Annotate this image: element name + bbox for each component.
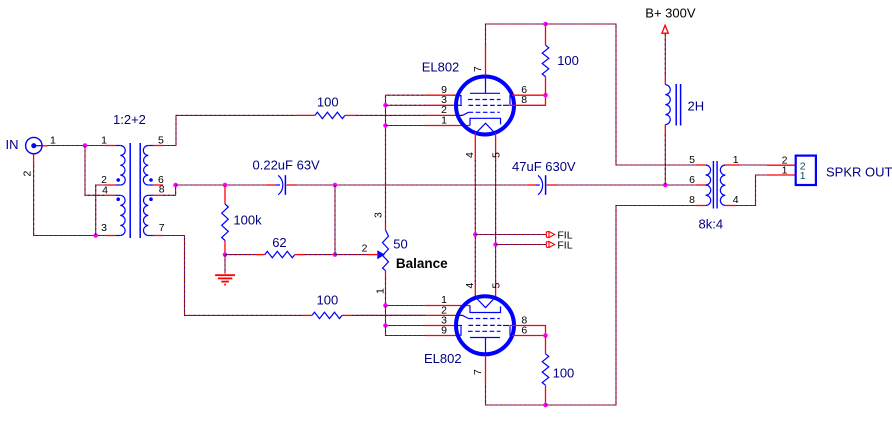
- transformer T1 secondary winding lower (pins 8-7): [148, 194, 153, 196]
- V1 grid dashed row g2: [468, 99, 501, 101]
- svg-text:9: 9: [441, 325, 447, 337]
- svg-text:1: 1: [800, 170, 806, 182]
- V1 plate: [470, 92, 500, 94]
- V2 plate: [470, 337, 500, 339]
- svg-text:2: 2: [362, 243, 368, 255]
- V2 heater filament: [475, 297, 495, 308]
- V2 plate lead to bottom rail: [485, 355, 487, 386]
- svg-text:FIL: FIL: [557, 239, 572, 251]
- tube V1 EL802 envelope: [456, 77, 514, 135]
- junction top rail R5: [543, 22, 548, 27]
- polarity dot T1 pin2: [116, 178, 120, 182]
- wire FIL bottom: [496, 244, 547, 246]
- V1 cathode: [470, 118, 501, 125]
- V2 grid dashed row g3: [469, 324, 502, 326]
- wire top rail to output transformer pin5: [546, 24, 696, 165]
- V1 grid dashed row g1: [469, 111, 500, 113]
- transformer T2 primary winding upper (pins 5-6): [706, 165, 711, 185]
- transformer T2 primary winding lower (pins 6-8): [706, 185, 711, 206]
- wire R1 to V1 pin2: [356, 114, 425, 116]
- svg-text:1: 1: [101, 135, 107, 147]
- resistor R2 100 grid stopper bottom: [302, 314, 312, 316]
- junction V1 pin3 row: [383, 103, 388, 108]
- T1 pin6 red stub: [153, 184, 163, 186]
- V2 cathode: [470, 306, 501, 313]
- svg-text:IN: IN: [6, 137, 19, 152]
- svg-text:4: 4: [733, 194, 739, 206]
- wire pot bottom bus to V2 pin1: [386, 278, 426, 306]
- wire T1 pin7 down and right to R2: [163, 236, 302, 316]
- resistor R3 100k to ground: [224, 185, 226, 204]
- wire junction up to C1 net: [334, 185, 336, 255]
- wire T1 pin5 up and right to R1: [163, 115, 296, 145]
- connector FIL top off-page arrow: [546, 232, 554, 238]
- wire ground node stem: [224, 255, 226, 274]
- wire T2 pin1 to SPKR OUT pin2: [725, 164, 740, 166]
- power symbol B+ arrow: [662, 25, 668, 33]
- connector J2 SPKR OUT box: [796, 156, 816, 185]
- V2 pin6 red lead: [512, 335, 546, 337]
- wire J1 pin2 down and right to T1 pin3: [34, 166, 106, 236]
- connector FIL bottom off-page arrow: [546, 242, 554, 248]
- wire R2 to V2 pin2 row: [355, 314, 425, 316]
- svg-text:100k: 100k: [233, 213, 262, 228]
- wire T1 pin8 up to pin6 net: [163, 185, 176, 195]
- capacitor C2 47uF left lead: [528, 184, 536, 186]
- capacitor C2 47uF: [535, 184, 539, 186]
- svg-text:EL802: EL802: [424, 351, 462, 366]
- junction wiper node: [333, 252, 338, 257]
- wire C2 to output transformer pin6: [557, 184, 696, 186]
- svg-text:8k:4: 8k:4: [699, 217, 724, 232]
- junction V1 pin1 row: [383, 123, 388, 128]
- svg-text:3: 3: [101, 222, 107, 234]
- junction bottom rail R6: [543, 403, 548, 408]
- wire junction down to T1 pin4: [85, 146, 106, 196]
- V2 grid dashed row g2: [468, 330, 501, 332]
- V1 pin4 lead down: [474, 133, 476, 160]
- junction V2 pin1 row: [383, 303, 388, 308]
- polarity dot T1 pin8: [149, 197, 153, 201]
- svg-text:7: 7: [472, 66, 484, 72]
- potentiometer VR1 wiper arrow: [377, 250, 385, 259]
- junction T1 pin6/pin8 tie: [173, 183, 178, 188]
- V2 grid bracket right: [510, 326, 514, 335]
- svg-text:100: 100: [317, 95, 339, 110]
- tube V2 EL802 envelope: [456, 296, 514, 354]
- svg-text:62: 62: [272, 235, 286, 250]
- wire T2 pin4 to SPKR OUT pin1: [725, 205, 735, 207]
- V2 grid dashed row g1: [469, 318, 500, 320]
- junction FIL top on pin4 bus: [473, 232, 478, 237]
- svg-text:3: 3: [373, 212, 385, 218]
- resistor R6 100 bottom plate load: [545, 336, 547, 354]
- svg-text:1: 1: [441, 114, 447, 126]
- V1 pin8 red lead turning up: [510, 95, 546, 105]
- svg-text:1: 1: [782, 164, 788, 176]
- wire B+ down to choke L1: [664, 34, 666, 75]
- polarity dot T1 pin6: [149, 178, 153, 182]
- svg-text:2H: 2H: [688, 99, 705, 114]
- svg-text:B+ 300V: B+ 300V: [645, 5, 696, 20]
- svg-text:4: 4: [464, 152, 476, 158]
- V2 control grid lead from pin2: [458, 315, 469, 318]
- svg-text:0.22uF 63V: 0.22uF 63V: [253, 157, 321, 172]
- wire wiper node to VR1 wiper arrow: [335, 254, 366, 256]
- svg-text:SPKR OUT: SPKR OUT: [826, 165, 892, 180]
- transformer T1 primary winding upper (pins 1-2): [116, 145, 121, 147]
- wire pot top bus to V1 grid pins: [386, 95, 426, 222]
- V2 grid bracket left: [457, 326, 461, 335]
- wire bus down to V2 pin9: [386, 326, 426, 336]
- junction mid node right of C1: [333, 183, 338, 188]
- wire R4 62 from ground node: [225, 254, 255, 256]
- V1 pin5 lead down: [495, 133, 497, 160]
- junction node at IN split: [83, 143, 88, 148]
- wire bottom rail to output transformer pin8: [546, 206, 696, 406]
- V2 pin8 red lead turning down: [510, 326, 546, 336]
- V1 grid bracket right: [510, 96, 514, 105]
- capacitor C1 0.22uF: [276, 184, 280, 186]
- svg-text:50: 50: [393, 237, 407, 252]
- polarity dot T1 pin4: [116, 197, 120, 201]
- svg-text:4: 4: [102, 185, 108, 197]
- svg-text:100: 100: [317, 292, 339, 307]
- wire mid net to C2: [456, 184, 528, 186]
- wire pin5 bus down to V2 pin5: [495, 160, 497, 282]
- junction choke node: [663, 183, 668, 188]
- inductor L1 2H choke winding: [665, 85, 670, 125]
- wire J1 pin1 to T1 pin1: [48, 145, 106, 147]
- svg-text:6: 6: [521, 325, 527, 337]
- junction on pin3 net: [93, 233, 98, 238]
- connector J1 IN jack: [26, 137, 42, 153]
- svg-text:Balance: Balance: [396, 256, 448, 271]
- T1 pin7 red stub: [153, 235, 163, 237]
- ground symbol: [215, 274, 235, 276]
- wire FIL top: [475, 234, 546, 236]
- svg-text:5: 5: [158, 135, 164, 147]
- svg-text:7: 7: [472, 369, 484, 375]
- V1 grid dashed row g3: [469, 104, 502, 106]
- transformer T1 core: [129, 143, 131, 238]
- resistor R4 62: [255, 254, 265, 256]
- V1 pin6 red lead: [512, 94, 546, 96]
- wire bus to V1 pin1: [386, 125, 426, 127]
- V1 plate lead to top rail: [485, 45, 487, 76]
- svg-text:100: 100: [553, 365, 575, 380]
- inductor L1 core: [675, 84, 677, 126]
- junction R3 bottom / ground node: [223, 252, 228, 257]
- potentiometer VR1 50 body: [385, 223, 387, 231]
- wire pin4 bus down to V2 pin4: [474, 160, 476, 282]
- svg-text:6: 6: [689, 174, 695, 186]
- svg-text:5: 5: [490, 152, 502, 158]
- svg-text:47uF 630V: 47uF 630V: [512, 159, 576, 174]
- T1 pin5 red stub: [153, 145, 163, 147]
- transformer T1 secondary winding upper (pins 5-6): [148, 145, 153, 147]
- junction FIL bottom on pin5 bus: [493, 242, 498, 247]
- svg-text:4: 4: [464, 283, 476, 289]
- svg-text:5: 5: [689, 154, 695, 166]
- svg-text:1: 1: [50, 135, 56, 147]
- resistor R1 100 grid stopper top: [296, 114, 315, 116]
- svg-text:1: 1: [375, 288, 387, 294]
- svg-text:2: 2: [22, 171, 34, 177]
- wire choke bottom to pin6 net: [664, 125, 666, 135]
- transformer T2 secondary winding (pins 1-4): [720, 165, 725, 205]
- junction R3 top: [223, 183, 228, 188]
- transformer T1 primary winding lower (pins 4-3): [116, 194, 121, 196]
- junction V2 pin3 row: [383, 323, 388, 328]
- wire R2 right: [352, 314, 425, 316]
- svg-text:8: 8: [689, 194, 695, 206]
- junction V1 plate-resistor node: [543, 93, 548, 98]
- wire bus down to V2 pin3: [386, 306, 426, 326]
- svg-text:7: 7: [159, 222, 165, 234]
- junction V2 plate-resistor node: [543, 333, 548, 338]
- svg-text:1:2+2: 1:2+2: [113, 112, 146, 127]
- capacitor C1 0.22uF left plate lead: [266, 184, 276, 186]
- V1 heater filament: [475, 123, 495, 134]
- T1 pin8 red stub: [153, 194, 163, 196]
- transformer T2 core: [712, 161, 714, 209]
- V1 grid bracket left: [457, 96, 461, 105]
- svg-text:1: 1: [733, 154, 739, 166]
- wire C1 right to pot bus crossing: [296, 184, 456, 186]
- wire bus to V1 pin3: [386, 104, 426, 106]
- wire R4 right to junction: [305, 254, 335, 256]
- svg-text:5: 5: [490, 283, 502, 289]
- V1 control grid lead from pin2: [458, 112, 469, 115]
- svg-text:100: 100: [557, 53, 579, 68]
- svg-text:EL802: EL802: [422, 60, 460, 75]
- wire T1 pin2 to pin3 net: [96, 185, 106, 236]
- resistor R5 100 top plate load: [545, 77, 547, 96]
- wire T1 pin6 to C1: [176, 184, 266, 186]
